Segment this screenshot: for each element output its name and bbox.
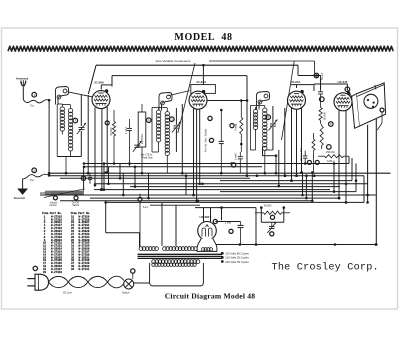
resistor R4 xyxy=(320,126,323,146)
antenna lead wire xyxy=(23,100,49,103)
tube V4 pin wires xyxy=(338,111,340,199)
wire bus 11 xyxy=(40,194,376,196)
antenna xyxy=(21,81,22,87)
filter cap number xyxy=(229,229,233,233)
tube V3 grid top wire xyxy=(291,84,314,86)
tube V5 socket bell xyxy=(197,239,217,252)
svg-text:2 mfd: 2 mfd xyxy=(225,222,232,225)
svg-text:40,000: 40,000 xyxy=(264,205,272,208)
svg-text:Volume: Volume xyxy=(50,202,58,204)
wire bus 13 xyxy=(60,200,313,202)
svg-text:Tun.: Tun. xyxy=(30,179,35,182)
coil T2 frame wires xyxy=(152,107,167,109)
svg-text:20: 20 xyxy=(43,271,47,274)
resistor R8 number xyxy=(315,160,319,164)
terminal 1 xyxy=(32,92,37,97)
capacitor C2 xyxy=(127,127,132,129)
coil T3 frame wires xyxy=(251,105,265,107)
svg-text:UX-245: UX-245 xyxy=(338,80,348,84)
capacitor C10 number xyxy=(307,160,311,164)
antenna coil T1 primary xyxy=(60,107,64,111)
svg-text:220 Volts 50 Cycles: 220 Volts 50 Cycles xyxy=(225,260,249,264)
tuning capacitor C6 xyxy=(272,106,274,123)
resistor R1 xyxy=(112,122,115,137)
wire lead 5 xyxy=(134,167,136,187)
fuse terminal xyxy=(138,197,142,201)
svg-text:Antenna: Antenna xyxy=(16,76,29,80)
tuning capacitor C1 xyxy=(80,95,82,126)
svg-text:Ground: Ground xyxy=(14,196,25,200)
tone block frame xyxy=(260,208,262,223)
svg-text:39: 39 xyxy=(71,268,75,271)
speaker driver xyxy=(364,94,378,108)
tuning capacitor C3 xyxy=(175,108,177,125)
tube V2 shield box xyxy=(191,85,216,94)
tube V1 pin wires xyxy=(94,108,96,186)
svg-text:250,000: 250,000 xyxy=(326,151,335,154)
capacitor C4 xyxy=(220,110,222,141)
terminal 15 xyxy=(209,138,213,142)
wire bracket1 to V1 xyxy=(68,92,93,97)
tube V5 plate terminal xyxy=(213,219,217,223)
terminal 2 xyxy=(32,168,37,173)
terminal 17 xyxy=(327,145,332,150)
capacitor C1 number xyxy=(73,118,78,123)
wire lead 1 xyxy=(105,121,109,125)
svg-text:110 Volts 25 Cycles: 110 Volts 25 Cycles xyxy=(225,256,249,260)
wire switch to transformer xyxy=(134,282,150,284)
coil shield can 2 xyxy=(159,93,172,111)
svg-text:W-27328: W-27328 xyxy=(51,271,62,274)
svg-text:Switch: Switch xyxy=(122,291,130,294)
svg-text:01-58A: 01-58A xyxy=(95,81,105,85)
terminal 6 xyxy=(329,122,334,127)
wire RF grid riser xyxy=(87,95,89,173)
legend line 1 xyxy=(221,252,224,255)
wire C4 lead xyxy=(220,144,222,174)
wire lead 6 xyxy=(148,173,150,198)
terminal 4 xyxy=(314,73,319,78)
svg-text:MODEL 48: MODEL 48 xyxy=(174,32,232,43)
wire lead 7 xyxy=(185,176,187,195)
wire top B+ bus xyxy=(96,64,298,66)
speaker bracket xyxy=(356,83,385,126)
resistor R3 xyxy=(319,108,322,121)
wire bus 15 xyxy=(195,207,256,209)
resistor R2 xyxy=(240,117,243,134)
padder unit number xyxy=(147,118,152,123)
wire bus 4 xyxy=(49,175,364,177)
resistor R7 xyxy=(264,211,282,214)
oscillator padder unit xyxy=(138,112,146,147)
svg-text:5-14: 5-14 xyxy=(143,207,148,209)
volume control number xyxy=(53,196,57,200)
capacitor C6 number xyxy=(266,115,271,120)
speaker terminal xyxy=(380,108,384,112)
resistor R8 xyxy=(312,139,315,151)
svg-text:2 mfd: 2 mfd xyxy=(234,153,238,160)
wire bus 7 xyxy=(94,183,368,185)
wire bus 9 xyxy=(94,189,330,191)
wire bracket2 to V2 xyxy=(169,91,190,96)
wire lead 2 xyxy=(108,167,110,184)
tube V2 pin wires xyxy=(193,109,195,195)
svg-text:50,000: 50,000 xyxy=(109,127,113,135)
wire stub a xyxy=(333,164,335,192)
power switch xyxy=(124,279,134,289)
svg-text:Peak Only: Peak Only xyxy=(142,156,154,159)
resistor R2 number xyxy=(230,124,234,128)
power cord twisted pair xyxy=(49,276,124,287)
tone trimmer number xyxy=(270,232,274,236)
wire bus 2 xyxy=(84,166,262,168)
wire T3 secondary return xyxy=(262,147,264,156)
tube V1 grid cap wire xyxy=(100,85,102,90)
IF coil T2 secondary xyxy=(165,112,169,116)
tube V2 grid cap wire xyxy=(202,65,204,84)
tube V3 xyxy=(288,91,306,109)
svg-text:Switch: Switch xyxy=(72,204,79,207)
svg-text:110 Volts 60 Cycles: 110 Volts 60 Cycles xyxy=(225,252,249,256)
tube V3 pin wires xyxy=(291,108,293,181)
wire V2 plate line xyxy=(207,100,247,102)
tube V4 grid wire xyxy=(346,84,348,90)
coil shield can 1 xyxy=(56,87,69,105)
wire bus 3 xyxy=(49,172,390,174)
padder trimmer xyxy=(134,144,140,146)
power transformer core xyxy=(138,253,223,255)
svg-text:Auto Variable Condensers: Auto Variable Condensers xyxy=(156,59,191,63)
transformer enclosure xyxy=(150,263,204,286)
svg-text:Tun.: Tun. xyxy=(30,104,35,107)
wire top bus 2 xyxy=(112,75,247,77)
wire stub b xyxy=(311,173,313,201)
wire lead 4 xyxy=(122,173,124,195)
wire bus 6 xyxy=(220,180,352,182)
condenser pointer line 2 xyxy=(282,61,295,140)
wire top line A xyxy=(209,60,315,62)
power plug xyxy=(27,278,35,280)
capacitor C8 xyxy=(81,176,85,180)
svg-text:Control: Control xyxy=(49,204,57,207)
power transformer secondary xyxy=(152,260,156,264)
node A junction xyxy=(48,99,51,102)
svg-text:3 meg: 3 meg xyxy=(234,123,238,131)
svg-text:UX-280: UX-280 xyxy=(200,215,210,219)
capacitor C5 xyxy=(238,156,243,158)
terminal 14 xyxy=(208,116,212,120)
tube V2 xyxy=(189,91,207,109)
svg-text:1 mfd: 1 mfd xyxy=(124,127,128,134)
separator rule xyxy=(8,46,393,51)
legend line 2 xyxy=(221,256,224,259)
IF coil T2 primary xyxy=(156,110,160,114)
capacitor C3 number xyxy=(170,117,175,122)
svg-text:01-24A: 01-24A xyxy=(291,80,301,84)
capacitor C7 xyxy=(318,91,323,93)
legend line 3 xyxy=(221,260,224,263)
wire bus 10 xyxy=(220,191,356,193)
resistor R7 number xyxy=(270,215,274,219)
svg-text:01-24A: 01-24A xyxy=(197,80,207,84)
svg-text:The Crosley Corp.: The Crosley Corp. xyxy=(272,262,379,274)
ground symbol xyxy=(17,189,28,195)
wire bus 8 xyxy=(130,186,340,188)
wire primary feed xyxy=(105,202,107,232)
svg-text:Phono P.U.: Phono P.U. xyxy=(299,147,303,160)
ground lead wire xyxy=(23,174,50,181)
svg-text:W-27341: W-27341 xyxy=(79,268,90,271)
power transformer primary xyxy=(139,247,143,251)
svg-text:For Vol. Dist. Switch: For Vol. Dist. Switch xyxy=(203,128,207,152)
wire T3 right riser xyxy=(278,150,280,186)
speaker lead wires xyxy=(367,125,369,203)
capacitor C7 number xyxy=(320,97,325,102)
antenna coil T1 secondary xyxy=(68,109,72,113)
coil shield can 3 xyxy=(257,92,270,110)
capacitor C10 xyxy=(303,155,308,157)
tone trimmer xyxy=(269,225,275,227)
resistor R5 xyxy=(325,155,344,158)
switch terminal xyxy=(131,269,135,273)
volume control R6 xyxy=(45,191,47,195)
filter capacitor C9 xyxy=(238,224,244,226)
coil T1 frame wires xyxy=(56,104,58,157)
wire T2 right riser xyxy=(181,104,183,173)
svg-text:AC Line: AC Line xyxy=(63,291,73,294)
wire bottom bus xyxy=(215,244,376,246)
tube V4 xyxy=(334,93,352,111)
wire bus 12 xyxy=(90,197,340,199)
plug terminal xyxy=(33,266,37,270)
wire antenna node down xyxy=(48,100,50,175)
svg-text:Circuit Diagram Model 48: Circuit Diagram Model 48 xyxy=(165,292,256,301)
IF coil T3 primary xyxy=(253,109,257,113)
wire bus 5 xyxy=(60,177,250,179)
tube V1 xyxy=(92,91,110,109)
IF coil T3 secondary xyxy=(263,108,267,112)
svg-text:On-Off: On-Off xyxy=(72,202,79,204)
tube V5 xyxy=(198,222,217,241)
wire bus 14 xyxy=(106,201,364,203)
condenser pointer line 1 xyxy=(178,63,195,133)
wire bus 1 xyxy=(84,163,349,165)
wire rectifier top xyxy=(210,208,212,223)
wire lead 3 xyxy=(119,164,121,179)
capacitor C5 number xyxy=(232,163,236,167)
svg-text:30,000: 30,000 xyxy=(322,112,326,120)
wire detector plate xyxy=(320,78,322,90)
wire secondary leads xyxy=(161,203,163,246)
terminal 5 xyxy=(345,87,350,92)
wire volume control riser xyxy=(83,167,85,191)
